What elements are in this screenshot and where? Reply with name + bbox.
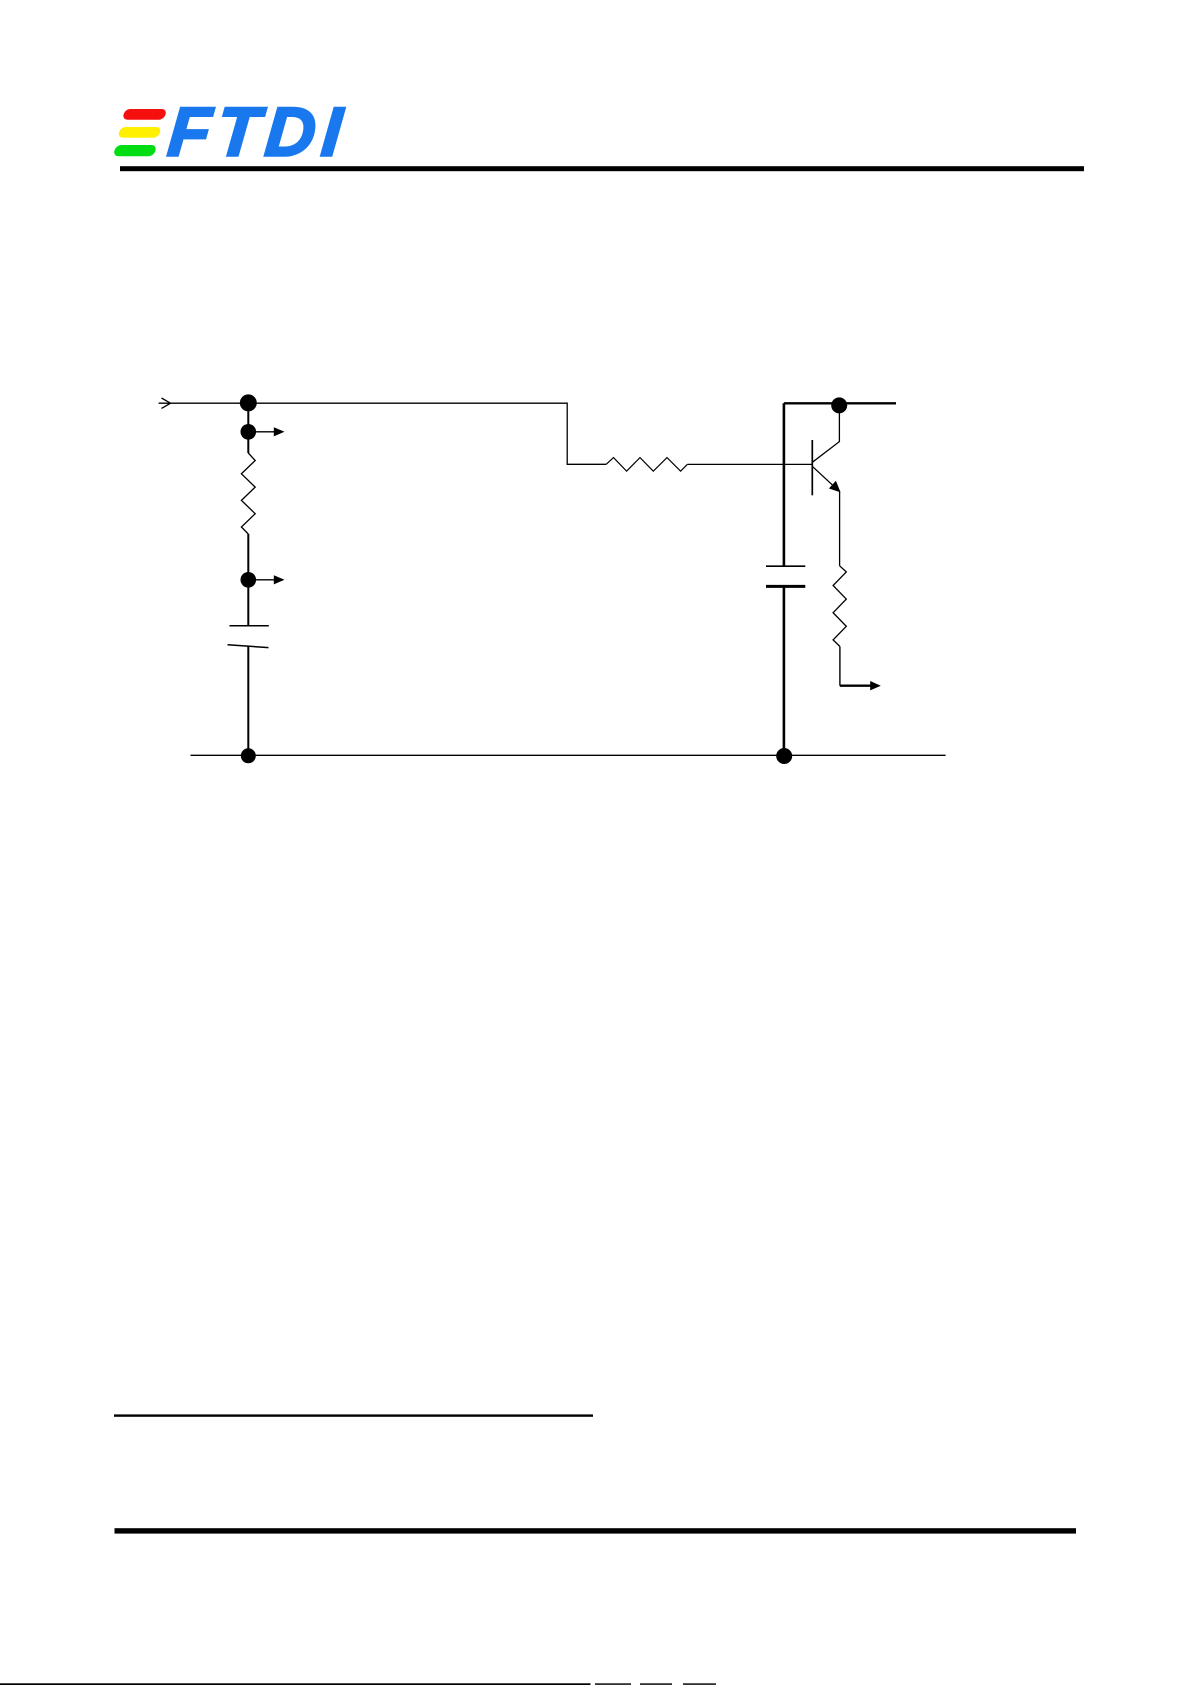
arrow at node B (256, 427, 285, 436)
resistor R1 (241, 453, 255, 534)
wire R3 to output (839, 646, 841, 685)
output wire with arrow (840, 681, 881, 690)
node E (top right) (831, 397, 847, 413)
wire node B to resistor R1 (247, 432, 249, 453)
page edge text fragment 1 (595, 1683, 631, 1685)
node C (241, 572, 257, 588)
transistor Q1 base bar (811, 440, 813, 495)
transistor Q1 emitter (812, 466, 840, 492)
svg-text:FTDI: FTDI (165, 93, 351, 171)
page edge text fragment 3 (683, 1683, 716, 1685)
capacitor C1 bottom plate (228, 645, 269, 648)
capacitor C2 bottom plate (766, 585, 805, 588)
wire node C to capacitor C1 (247, 580, 249, 625)
transistor Q1 collector (812, 405, 839, 462)
node D (ground rail left) (241, 748, 256, 763)
FTDI logo bars (112, 109, 167, 156)
page edge text fragment 2 (640, 1683, 672, 1685)
node F (ground rail right) (776, 748, 792, 764)
resistor R2 (base) (606, 458, 687, 472)
arrow at node C (256, 575, 285, 584)
wire C1 to ground rail (247, 647, 249, 756)
wire input to base resistor (159, 403, 607, 464)
wire R1 to node C (247, 534, 249, 580)
wire node A to node B (247, 403, 249, 432)
bottom rule (115, 1528, 1077, 1533)
wire C2 to ground rail (783, 586, 786, 756)
page edge line (0, 1683, 591, 1685)
top right supply rail (784, 402, 896, 404)
node A (input junction) (240, 394, 257, 411)
node B (241, 424, 257, 440)
wire collector branch upper (783, 403, 786, 566)
wire R2 to base (687, 463, 812, 465)
footnote rule (114, 1414, 593, 1416)
wire emitter to resistor R3 (839, 492, 841, 566)
capacitor C1 top plate (230, 625, 269, 627)
resistor R3 (833, 566, 846, 647)
input chevron (162, 398, 171, 408)
header rule (120, 166, 1084, 171)
capacitor C2 top plate (766, 565, 805, 567)
ground rail (191, 754, 946, 756)
